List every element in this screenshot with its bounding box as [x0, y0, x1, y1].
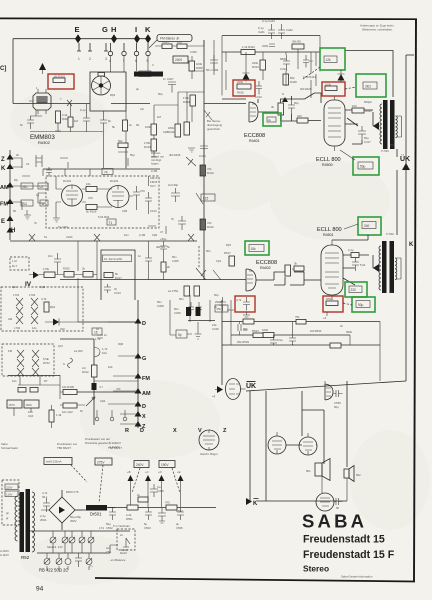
vertical x222: [221, 300, 223, 385]
power transformer core left: [20, 492, 25, 552]
wire left stub 392: [60, 385, 85, 405]
rectifier bridge diamond: [41, 497, 83, 523]
svg-text:Ca62: Ca62: [286, 28, 293, 32]
svg-text:R1: R1: [136, 123, 140, 127]
svg-text:560pF: 560pF: [364, 100, 372, 104]
pin 9 socket: [146, 43, 150, 63]
terminal D2 sel: [135, 401, 147, 410]
svg-text:1,3k: 1,3k: [56, 413, 62, 417]
wire y321 long: [222, 321, 380, 323]
wires tube to transformer lower: [343, 255, 379, 285]
junction diamond I: [134, 34, 140, 43]
resistor inside R5: [326, 297, 338, 306]
svg-text:R409: R409: [183, 100, 190, 104]
svg-text:Fil.-Sammelfilt.: Fil.-Sammelfilt.: [104, 257, 123, 261]
text 50n R: [157, 300, 164, 308]
callout leader line: [149, 40, 157, 48]
svg-text:1M R303: 1M R303: [54, 75, 66, 79]
svg-text:250﻿A: 250﻿A: [40, 518, 47, 522]
wire y335 stub: [170, 334, 192, 335]
capacitor C413: [255, 81, 262, 99]
svg-text:Dr501: Dr501: [90, 512, 102, 517]
terminal X sel: [135, 411, 147, 420]
svg-text:25k: 25k: [217, 307, 222, 311]
red box R2: [322, 82, 345, 96]
svg-text:Z: Z: [1, 157, 5, 163]
resistor R305c: [68, 117, 79, 127]
pin 1 stub: [77, 43, 81, 61]
vertical feed x170: [169, 300, 171, 335]
red box upper left: [233, 80, 255, 96]
svg-text:39,1: 39,1: [42, 495, 48, 499]
svg-text:R411: R411: [168, 130, 175, 134]
svg-text:502: 502: [356, 473, 361, 477]
svg-text:100k: 100k: [262, 328, 269, 332]
svg-text:12k: 12k: [326, 58, 332, 62]
labels under coils: [14, 326, 37, 330]
svg-text:C305: C305: [172, 259, 179, 263]
svg-text:C412: C412: [280, 67, 287, 71]
svg-text:Cβ2: Cβ2: [40, 285, 46, 289]
svg-text:1,7k: 1,7k: [95, 337, 101, 341]
svg-text:S: S: [63, 362, 65, 366]
resistor R504: [194, 286, 200, 296]
wire diode R2: [338, 70, 345, 83]
terminal Z left: [1, 154, 14, 163]
svg-text:5Ω: 5Ω: [390, 143, 394, 147]
resistor R305b: [82, 267, 93, 278]
Tr501 secondary bumps: [396, 116, 398, 138]
dashed link switch: [198, 246, 200, 268]
FM-Stereo Jn callout box: [157, 35, 192, 42]
svg-text:R626: R626: [237, 91, 244, 95]
svg-text:50μ: 50μ: [334, 405, 339, 409]
vertical feed x190: [189, 295, 191, 322]
boxed 50u inside green G: [356, 301, 370, 308]
resistor R436: [297, 114, 308, 123]
svg-text:D: D: [142, 404, 146, 410]
svg-text:C505: C505: [176, 526, 183, 530]
pentode small upper right: [325, 384, 333, 400]
switch diagonal top: [186, 157, 196, 166]
wire R304 down: [55, 123, 61, 131]
svg-text:AM: AM: [8, 317, 13, 321]
terminal FM left: [0, 199, 14, 208]
svg-text:H: H: [111, 25, 116, 34]
wire y46 stubs: [155, 40, 204, 46]
svg-text:R424: R424: [252, 65, 259, 69]
junction dot N: [282, 97, 288, 102]
svg-text:K: K: [409, 242, 414, 248]
wire y99 to tube: [222, 98, 246, 100]
svg-text:47: 47: [160, 230, 164, 234]
svg-text:C309: C309: [174, 311, 181, 315]
svg-text:275V: 275V: [97, 461, 105, 465]
capacitor C504: [158, 508, 166, 524]
wires decoder mesh: [222, 36, 320, 99]
svg-text:K: K: [145, 25, 151, 34]
ground sym left: [24, 210, 31, 219]
svg-text:390k: 390k: [346, 330, 353, 334]
svg-text:R305: R305: [63, 267, 70, 271]
svg-text:5k R106: 5k R106: [86, 210, 97, 214]
svg-text:5,6k: 5,6k: [360, 263, 366, 267]
resistor R312: [82, 365, 97, 377]
svg-text:240: 240: [297, 114, 302, 118]
arrow up 1: [127, 470, 134, 507]
text kOhmV: [109, 441, 121, 449]
resistor R413: [144, 139, 157, 151]
svg-text:R704: R704: [43, 361, 50, 365]
resistor R424: [252, 60, 266, 70]
resistor R513: [294, 262, 304, 272]
coil L703 crosses: [17, 350, 24, 376]
svg-text:G: G: [102, 25, 108, 34]
wire eye box bottom down: [103, 111, 105, 168]
svg-text:1M: 1M: [157, 115, 162, 119]
dashed box Ra1X: [117, 529, 135, 555]
svg-text:10A: 10A: [102, 351, 107, 355]
svg-text:R502: R502: [176, 509, 183, 513]
wire eye box down: [125, 111, 127, 168]
svg-text:R317: R317: [115, 276, 122, 280]
resistor R306: [62, 385, 77, 395]
svg-text:K: K: [253, 501, 258, 507]
svg-text:501: 501: [306, 469, 311, 473]
svg-text:50μ: 50μ: [360, 165, 366, 169]
boxed label 1570: [7, 400, 22, 408]
wire y335: [231, 334, 350, 336]
pin 3 stub: [104, 43, 108, 61]
wire x86: [61, 104, 103, 133]
svg-text:R413: R413: [144, 145, 151, 149]
wire bus y322: [78, 321, 138, 323]
boxed 515 label: [201, 194, 215, 201]
lamp 3: [69, 531, 75, 553]
resistor R302: [43, 267, 55, 278]
svg-text:50k: 50k: [118, 139, 123, 143]
wires if row: [29, 241, 97, 322]
boxed MU label: [21, 183, 33, 189]
capacitor C311 solid: [196, 307, 201, 316]
wires joining if column: [151, 71, 204, 157]
ground midright: [195, 322, 202, 339]
antenna coil stub: [38, 193, 46, 203]
diode above red R2: [338, 74, 345, 81]
svg-text:1600: 1600: [26, 403, 33, 407]
wire heater right: [110, 545, 118, 553]
resistor R532: [262, 328, 274, 338]
green box D: [358, 217, 381, 235]
ECLL800 tube envelope upper: [324, 100, 345, 146]
choke Dr501: [86, 505, 107, 517]
svg-text:+C: +C: [145, 470, 149, 474]
svg-text:AM: AM: [142, 391, 151, 397]
capacitor Ca61: [258, 24, 275, 39]
wire y107: [204, 103, 246, 105]
speaker 501: [306, 459, 330, 481]
text ratio: [74, 349, 83, 353]
capacitor C520: [352, 257, 366, 271]
svg-text:25k R529: 25k R529: [237, 340, 249, 344]
resistor R305a: [63, 267, 74, 278]
ECLL800 lower internals: [325, 240, 339, 300]
svg-text:36k Rβ: 36k Rβ: [292, 40, 301, 44]
capacitor C302: [20, 116, 34, 129]
capacitor C417: [358, 126, 371, 144]
svg-text:Cβ5: Cβ5: [122, 209, 128, 213]
svg-text:3: 3: [105, 57, 107, 61]
svg-text:G: G: [142, 356, 146, 362]
text 120 C: [28, 410, 34, 418]
svg-text:R410: R410: [207, 171, 214, 175]
wire pentode top: [324, 381, 326, 384]
resistor R531: [243, 319, 254, 332]
capacitor C408: [206, 55, 219, 72]
svg-text:I: I: [135, 25, 137, 34]
terminal G sel: [135, 353, 147, 362]
leader dash red R2 to green B: [345, 87, 356, 89]
svg-text:Cβ0: Cβ0: [152, 233, 158, 237]
svg-text:50n C408: 50n C408: [206, 68, 219, 72]
X tick right: [188, 234, 194, 241]
svg-text:2kΩ: 2kΩ: [365, 85, 371, 89]
capacitor C408b: [150, 484, 164, 497]
boxed label 275V: [95, 458, 112, 465]
vertical x380: [379, 322, 381, 382]
text Drucktasten: [85, 437, 110, 445]
svg-text:240V: 240V: [136, 463, 144, 467]
svg-text:0,1μ Ca61: 0,1μ Ca61: [262, 19, 275, 23]
svg-text:+D: +D: [158, 470, 162, 474]
svg-text:5,6k Rβ4: 5,6k Rβ4: [98, 215, 110, 219]
output transformer Tr501 core left: [383, 100, 388, 149]
wire y320 row: [188, 320, 215, 322]
svg-text:230: 230: [60, 327, 65, 331]
svg-text:0,5μ: 0,5μ: [277, 338, 283, 342]
svg-text:ÜK: ÜK: [246, 381, 256, 390]
boxed W label: [40, 200, 48, 206]
mains texts gn gr: [6, 511, 10, 520]
resistor R402: [177, 40, 187, 49]
svg-text:3n: 3n: [340, 324, 344, 328]
svg-text:50n: 50n: [206, 249, 211, 253]
bus wire y507: [108, 507, 216, 509]
wire x43 tuner drop: [43, 169, 90, 176]
wires tuner internals: [56, 176, 149, 218]
resistor R523: [252, 329, 263, 338]
pin 7 socket: [122, 43, 126, 63]
vertical feed x210: [209, 300, 211, 322]
text Netz labels: [57, 442, 78, 450]
svg-text:2200: 2200: [262, 44, 269, 48]
wires ecc lower to ecll: [256, 265, 321, 285]
svg-text:50μ: 50μ: [130, 153, 135, 157]
green box E: [345, 282, 367, 297]
label 4,7k: [42, 491, 48, 499]
svg-text:Schwarzwald: Schwarzwald: [1, 446, 18, 450]
wire oval to box: [241, 388, 246, 390]
svg-text:LT.2: LT.2: [99, 526, 105, 530]
terminal D sel: [135, 318, 147, 327]
tuner dashed enclosure: [46, 176, 159, 228]
wire y345: [222, 344, 380, 346]
svg-text:6800: 6800: [280, 57, 287, 61]
wire bus x202 lower: [203, 160, 205, 280]
svg-text:Rö101: Rö101: [63, 179, 72, 183]
resistor R626 in red: [237, 80, 251, 95]
right border line: [414, 19, 416, 582]
Tr501 primary bumps: [380, 104, 382, 144]
svg-text:FM-Stereo IN: FM-Stereo IN: [136, 73, 157, 77]
mains dashed box: [2, 480, 19, 525]
svg-text:15k: 15k: [251, 247, 257, 251]
wire tube top to green D: [332, 235, 368, 240]
resistor R408: [189, 61, 203, 71]
output box left vertical: [249, 391, 251, 501]
svg-text:1 M: 1 M: [12, 259, 17, 263]
FM Stereo IN black label: [134, 72, 163, 77]
pin 4 socket: [108, 43, 112, 63]
svg-text:Cβ8: Cβ8: [163, 130, 169, 134]
triode ECC808a envelope: [249, 102, 258, 122]
svg-text:N: N: [282, 92, 284, 96]
magic eye enclosure box: [90, 72, 126, 111]
ECC808b grid lines: [247, 271, 253, 283]
svg-text:R7: R7: [44, 379, 48, 383]
green box G: [352, 297, 375, 312]
svg-text:C313: C313: [114, 291, 121, 295]
tube Ro102 circle: [107, 186, 129, 208]
svg-text:MU: MU: [23, 185, 29, 189]
svg-text:75k: 75k: [295, 315, 300, 319]
svg-text:Rö500: Rö500: [322, 163, 333, 167]
resistor R430: [271, 103, 284, 115]
text 21k: [212, 305, 219, 331]
inner frame right vertical: [405, 55, 407, 381]
lamp 4: [79, 531, 85, 553]
inner frame bottom slanted: [246, 381, 406, 391]
Tr502 primary bumps: [379, 246, 381, 290]
terminal AM left: [0, 182, 14, 191]
svg-text:Rö102: Rö102: [110, 179, 119, 183]
ground if column: [188, 148, 195, 152]
svg-text:4,7: 4,7: [99, 385, 103, 389]
diode arrow to transformer: [373, 122, 379, 130]
svg-text:Rö401: Rö401: [249, 139, 260, 143]
tube V1 circle: [268, 432, 286, 454]
svg-text:10k: 10k: [86, 182, 91, 186]
svg-text:Freudenstadt 15 F: Freudenstadt 15 F: [303, 549, 395, 561]
curl S left: [63, 358, 73, 368]
magic eye screen circle: [92, 76, 111, 95]
svg-text:96h: 96h: [243, 327, 248, 331]
svg-text:240: 240: [364, 224, 370, 228]
svg-text:gn: gn: [6, 511, 10, 515]
coil curl: [94, 347, 108, 357]
ECLL800 tube envelope lower: [321, 245, 343, 295]
wires output box inner: [257, 381, 347, 501]
arrow up 4: [177, 470, 184, 507]
secondary wires lower: [396, 258, 401, 279]
rohren note text: [151, 151, 164, 166]
svg-text:1n: 1n: [138, 254, 142, 258]
svg-text:10n: 10n: [48, 254, 53, 258]
labels right of filter: [156, 237, 179, 293]
switch diagonals lower: [196, 268, 221, 280]
wire x70: [70, 104, 72, 133]
arrow up 2: [145, 470, 151, 507]
resistor R105: [86, 182, 97, 192]
boxed label weiss 220mA: [44, 458, 72, 465]
capacitor C320: [97, 333, 108, 338]
heater bus bottom: [37, 552, 110, 554]
capacitor C322 dark: [92, 383, 104, 390]
svg-text:Lβ3: Lβ3: [58, 344, 63, 348]
svg-text:RB 422 50Ω 2C: RB 422 50Ω 2C: [39, 568, 68, 573]
wire x350: [349, 335, 351, 345]
resistor R307 in filter: [104, 272, 122, 280]
svg-text:+B: +B: [127, 470, 131, 474]
stub wires texture: [22, 152, 166, 234]
svg-text:C201: C201: [66, 235, 73, 239]
power transformer core right: [26, 489, 31, 552]
svg-text:+5: +5: [323, 316, 327, 320]
svg-text:Cβ: Cβ: [309, 59, 313, 63]
wire from bus down left: [12, 39, 14, 104]
boxed 5p label: [176, 330, 187, 338]
ground below R4: [243, 312, 250, 319]
svg-text:gr: gr: [6, 516, 9, 520]
resistor R512: [285, 265, 296, 276]
wire x126 to 74box: [125, 148, 127, 169]
row2 element 1: [44, 553, 50, 570]
capacitor C301: [83, 112, 90, 128]
arrow up 3: [158, 470, 165, 507]
svg-text:10n Cβ2: 10n Cβ2: [62, 410, 73, 414]
resistor R412 dark: [200, 219, 214, 230]
output transformer Tr502 core right: [390, 241, 395, 293]
svg-text:UT: UT: [40, 185, 44, 189]
top border line: [0, 17, 417, 20]
capacitor C535: [333, 390, 343, 409]
capacitor C409b: [171, 216, 186, 230]
pin stub x125: [123, 410, 127, 421]
svg-text:Rβ1: Rβ1: [50, 305, 56, 309]
note text block: [207, 119, 223, 131]
svg-text:+E: +E: [177, 470, 181, 474]
svg-text:1M R530: 1M R530: [310, 329, 322, 333]
junction diamond E: [75, 34, 81, 43]
svg-text:Saba-Geratei-information: Saba-Geratei-information: [341, 575, 373, 579]
heater bus top: [30, 530, 130, 532]
label R704: [43, 357, 50, 365]
diode D302: [33, 272, 39, 279]
capacitor C502: [106, 508, 116, 531]
X tick mid: [94, 234, 100, 241]
capacitor C411b: [262, 44, 275, 48]
eye cap contact: [98, 73, 105, 77]
capacitor C416: [138, 253, 152, 267]
svg-text:R501: R501: [126, 517, 133, 521]
leader dash green A: [303, 67, 320, 79]
capacitor C103: [133, 186, 145, 202]
svg-text:74: 74: [104, 171, 108, 175]
svg-text:50: 50: [13, 209, 17, 213]
svg-text:10n: 10n: [124, 233, 129, 237]
wire green to transformer: [345, 51, 393, 98]
green box F: [245, 241, 269, 255]
